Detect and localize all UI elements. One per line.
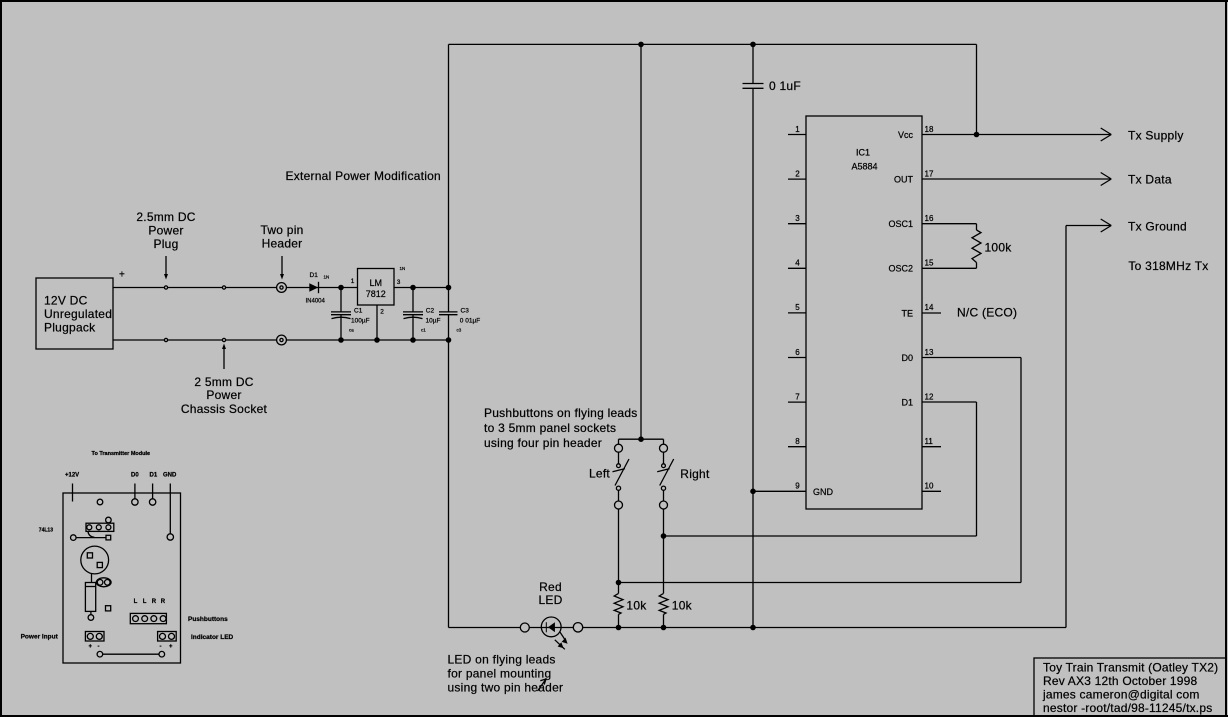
svg-text:Tx Supply: Tx Supply [1128, 129, 1184, 143]
svg-text:10µF: 10µF [426, 318, 441, 325]
svg-text:Toy Train Transmit (Oatley TX2: Toy Train Transmit (Oatley TX2) [1043, 661, 1218, 675]
svg-text:11: 11 [925, 437, 934, 446]
svg-text:nestor -root/tad/98-11245/tx.p: nestor -root/tad/98-11245/tx.ps [1043, 701, 1212, 715]
svg-text:LED: LED [538, 593, 562, 607]
svg-text:Header: Header [262, 237, 303, 251]
svg-text:-: - [98, 644, 100, 650]
svg-text:N/C (ECO): N/C (ECO) [957, 306, 1017, 320]
svg-text:ca: ca [349, 328, 354, 333]
svg-text:7: 7 [795, 392, 800, 401]
svg-text:16: 16 [925, 214, 934, 223]
svg-text:Red: Red [539, 580, 562, 594]
svg-text:LM: LM [370, 278, 383, 288]
svg-text:D0: D0 [901, 353, 913, 363]
svg-text:Rev AX3 12th October 1998: Rev AX3 12th October 1998 [1043, 674, 1198, 688]
svg-text:D1: D1 [310, 272, 319, 279]
svg-text:Pushbuttons on flying leads: Pushbuttons on flying leads [484, 406, 638, 420]
svg-text:GND: GND [813, 487, 834, 497]
svg-text:+: + [169, 644, 173, 650]
svg-text:R: R [152, 599, 157, 605]
svg-text:Plugpack: Plugpack [44, 321, 96, 335]
svg-text:C2: C2 [426, 308, 435, 315]
svg-text:Right: Right [680, 467, 710, 481]
svg-text:15: 15 [925, 259, 934, 268]
svg-text:Unregulated: Unregulated [44, 307, 112, 321]
svg-text:+: + [89, 644, 93, 650]
svg-text:c1: c1 [421, 328, 426, 333]
svg-text:james cameron@digital com: james cameron@digital com [1042, 688, 1200, 702]
svg-text:2 5mm DC: 2 5mm DC [194, 375, 253, 389]
svg-text:IC1: IC1 [856, 148, 870, 158]
svg-text:TE: TE [901, 308, 913, 318]
svg-text:3: 3 [397, 279, 401, 286]
svg-text:L: L [134, 599, 138, 605]
svg-text:9: 9 [795, 482, 800, 491]
svg-text:C3: C3 [461, 308, 470, 315]
svg-text:2: 2 [380, 309, 384, 316]
svg-text:100µF: 100µF [351, 318, 370, 325]
svg-text:GND: GND [163, 473, 177, 479]
svg-text:Chassis Socket: Chassis Socket [181, 402, 268, 416]
svg-text:Power Input: Power Input [21, 634, 59, 641]
svg-text:LED on flying leads: LED on flying leads [448, 653, 556, 667]
svg-text:+12V: +12V [65, 473, 79, 479]
svg-text:IN4004: IN4004 [306, 299, 326, 305]
svg-text:c3: c3 [457, 328, 462, 333]
svg-text:Vcc: Vcc [898, 130, 914, 140]
svg-text:Left: Left [589, 467, 610, 481]
svg-text:4: 4 [795, 259, 800, 268]
svg-text:1: 1 [351, 278, 355, 285]
svg-text:13: 13 [925, 348, 934, 357]
svg-text:to 3 5mm panel sockets: to 3 5mm panel sockets [484, 421, 616, 435]
svg-text:Two pin: Two pin [260, 223, 303, 237]
svg-text:10: 10 [925, 482, 934, 491]
svg-text:1N: 1N [400, 266, 406, 271]
svg-text:Indicator LED: Indicator LED [191, 634, 234, 641]
svg-text:OSC2: OSC2 [888, 264, 913, 274]
svg-text:L: L [143, 599, 147, 605]
svg-text:using two pin header: using two pin header [448, 681, 564, 695]
svg-text:17: 17 [925, 169, 934, 178]
svg-text:8: 8 [795, 437, 800, 446]
svg-text:Tx Ground: Tx Ground [1128, 220, 1187, 234]
svg-text:R: R [161, 599, 166, 605]
svg-text:+: + [119, 270, 125, 281]
svg-text:Power: Power [206, 388, 241, 402]
svg-text:5: 5 [795, 303, 800, 312]
svg-text:Pushbuttons: Pushbuttons [188, 616, 228, 623]
svg-text:12: 12 [925, 392, 934, 401]
svg-text:OUT: OUT [894, 175, 914, 185]
svg-text:18: 18 [925, 125, 934, 134]
svg-text:12V DC: 12V DC [44, 294, 88, 308]
svg-text:100k: 100k [985, 241, 1013, 255]
svg-text:74L13: 74L13 [39, 528, 53, 534]
svg-text:3: 3 [795, 214, 800, 223]
svg-text:OSC1: OSC1 [888, 219, 913, 229]
svg-text:To 318MHz Tx: To 318MHz Tx [1128, 259, 1208, 273]
svg-text:D1: D1 [901, 398, 913, 408]
svg-text:D0: D0 [131, 473, 139, 479]
svg-text:10k: 10k [672, 599, 693, 613]
svg-text:D1: D1 [150, 473, 158, 479]
svg-text:Tx Data: Tx Data [1128, 173, 1172, 187]
svg-text:To Transmitter Module: To Transmitter Module [92, 451, 151, 457]
svg-text:Power: Power [148, 224, 183, 238]
svg-text:0 1uF: 0 1uF [769, 79, 801, 93]
svg-text:Plug: Plug [153, 237, 178, 251]
svg-text:6: 6 [795, 348, 800, 357]
svg-text:2: 2 [795, 169, 800, 178]
svg-text:7812: 7812 [366, 289, 386, 299]
svg-text:using four pin header: using four pin header [484, 436, 602, 450]
svg-text:-: - [160, 644, 162, 650]
svg-text:A5884: A5884 [851, 162, 877, 172]
svg-text:External Power Modification: External Power Modification [286, 169, 441, 183]
svg-text:1N: 1N [324, 275, 330, 280]
svg-text:14: 14 [925, 303, 934, 312]
svg-text:0 01µF: 0 01µF [460, 318, 480, 325]
svg-text:10k: 10k [626, 599, 647, 613]
svg-text:1: 1 [795, 125, 800, 134]
svg-text:C1: C1 [354, 308, 363, 315]
svg-text:2.5mm DC: 2.5mm DC [136, 210, 195, 224]
svg-text:for panel mounting: for panel mounting [448, 667, 552, 681]
